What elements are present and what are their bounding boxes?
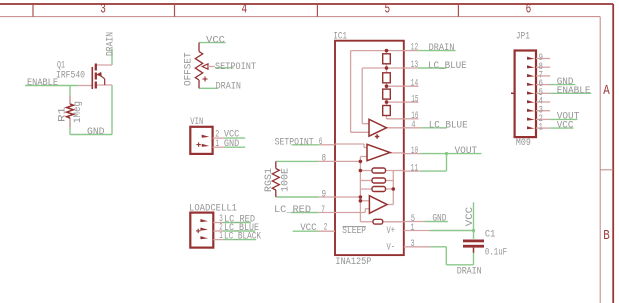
svg-text:LC_BLUE: LC_BLUE (428, 61, 467, 72)
svg-text:GND: GND (224, 139, 239, 150)
svg-text:7: 7 (321, 205, 325, 216)
svg-text:M09: M09 (516, 138, 531, 149)
svg-text:2: 2 (324, 222, 328, 233)
svg-text:VCC: VCC (206, 35, 225, 46)
svg-text:VCC: VCC (557, 120, 574, 131)
svg-text:13: 13 (411, 60, 418, 71)
svg-text:1: 1 (215, 139, 219, 150)
svg-text:0.1uF: 0.1uF (485, 247, 507, 258)
svg-text:V-: V- (387, 243, 396, 254)
svg-text:R1: R1 (58, 107, 69, 122)
svg-text:GND: GND (87, 127, 105, 138)
svg-text:LC_RED: LC_RED (274, 205, 311, 216)
svg-text:DRAIN: DRAIN (457, 267, 482, 278)
svg-text:DRAIN: DRAIN (216, 82, 241, 93)
svg-text:9: 9 (322, 189, 327, 200)
svg-text:LC_BLUE: LC_BLUE (429, 120, 468, 131)
svg-text:VOUT: VOUT (455, 146, 478, 157)
svg-text:14: 14 (411, 79, 418, 90)
svg-text:RGS1: RGS1 (264, 168, 275, 192)
svg-text:B: B (603, 228, 610, 244)
svg-text:A: A (603, 83, 610, 99)
svg-text:IRF540: IRF540 (56, 70, 85, 81)
svg-text:DRAIN: DRAIN (429, 43, 455, 54)
svg-text:VIN: VIN (190, 117, 203, 128)
svg-text:5: 5 (385, 2, 391, 18)
svg-text:3: 3 (411, 239, 415, 250)
svg-text:12: 12 (411, 43, 418, 54)
svg-text:15: 15 (411, 94, 418, 105)
svg-text:V+: V+ (387, 226, 396, 237)
svg-text:ENABLE: ENABLE (557, 86, 591, 97)
svg-text:INA125P: INA125P (335, 257, 371, 268)
svg-text:C1: C1 (485, 230, 495, 241)
svg-text:1: 1 (411, 223, 415, 234)
svg-text:ENABLE: ENABLE (27, 78, 58, 89)
svg-text:VCC: VCC (465, 207, 476, 226)
svg-text:100E: 100E (280, 168, 291, 192)
svg-text:6: 6 (319, 137, 323, 148)
svg-text:GND: GND (432, 213, 446, 224)
svg-text:4: 4 (242, 2, 248, 18)
svg-text:1Meg: 1Meg (73, 101, 84, 123)
svg-text:OFFSET: OFFSET (183, 52, 194, 86)
svg-text:SETPOINT: SETPOINT (275, 138, 314, 149)
svg-text:11: 11 (411, 163, 418, 174)
svg-text:6: 6 (526, 2, 532, 18)
svg-text:VCC: VCC (300, 223, 317, 234)
svg-text:SETPOINT: SETPOINT (215, 62, 256, 73)
svg-text:SLEEP: SLEEP (342, 226, 366, 237)
svg-text:1: 1 (219, 231, 223, 242)
svg-text:8: 8 (322, 154, 327, 165)
svg-text:DRAIN: DRAIN (106, 32, 117, 56)
svg-text:JP1: JP1 (516, 32, 530, 43)
svg-text:3: 3 (100, 2, 106, 18)
svg-text:10: 10 (411, 146, 418, 157)
svg-text:4: 4 (411, 120, 415, 131)
svg-text:IC1: IC1 (333, 32, 347, 43)
svg-text:LC_BLACK: LC_BLACK (224, 232, 261, 243)
svg-text:LOADCELL1: LOADCELL1 (189, 204, 237, 215)
svg-text:1: 1 (539, 123, 544, 134)
